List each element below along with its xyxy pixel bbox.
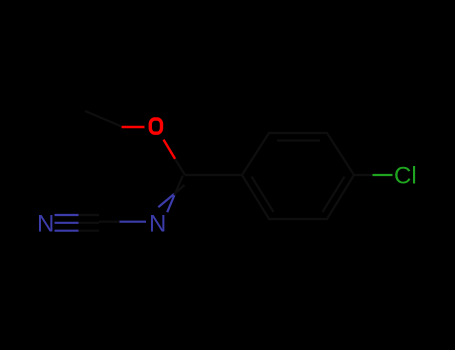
benzene inner line top [277, 139, 320, 141]
benzene ring edges (carbon) [242, 133, 354, 219]
bond C4-ring (carbon) [185, 174, 242, 176]
bond C4-O carbon half [175, 159, 185, 175]
bond ring-Cl carbon half [354, 174, 373, 176]
double bond N3=C4 (crossed) line B carbon half [174, 176, 182, 196]
svg-text:Cl: Cl [394, 163, 417, 190]
single bond C2-N3 nitrogen half [120, 221, 147, 223]
double bond N3=C4 (crossed) line B blue half [167, 195, 174, 212]
benzene inner line lower-left [252, 177, 274, 213]
bond O-C6 oxygen half (red) [122, 126, 145, 128]
bond C4-O oxygen half (red) [164, 140, 176, 159]
bond C6-C7 (carbon, faint) [85, 111, 122, 127]
bond ring-Cl chlorine half (green) [373, 174, 393, 176]
svg-text:N: N [149, 211, 166, 238]
svg-text:N: N [37, 211, 54, 238]
triple bond N1#C2 (carbon halves) [79, 215, 100, 231]
double bond N3=C4 (crossed) line A blue half [158, 194, 174, 207]
O atom (drawn ring) [150, 119, 161, 133]
double bond N3=C4 (crossed) line A carbon half [174, 185, 184, 194]
single bond C2-N3 carbon half [99, 221, 120, 223]
triple bond N1#C2 (blue halves) [55, 215, 79, 231]
benzene inner line lower-right [323, 177, 345, 213]
